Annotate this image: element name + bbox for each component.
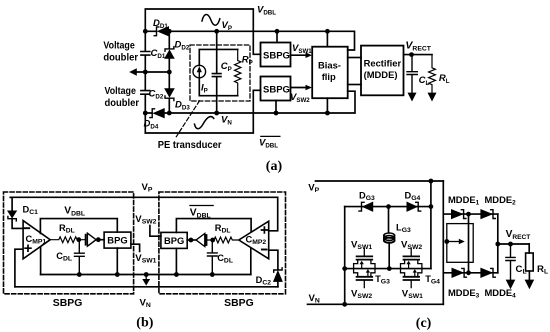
node: CL tap (c) — [508, 242, 513, 247]
svg-text:MDDE3: MDDE3 — [448, 287, 480, 300]
node: left branch VN junction — [342, 302, 347, 307]
capacitor Cp — [212, 74, 221, 77]
resistor RL (a) — [429, 55, 436, 93]
overline VDBLbar (b) — [189, 205, 214, 207]
wire: gate diode row — [345, 206, 431, 208]
CMP2 plus sign — [262, 227, 268, 233]
transistor TG4 — [401, 249, 422, 288]
diode DD4 — [150, 109, 164, 118]
node: VDBL/CD1 junction — [143, 29, 148, 34]
wire: BPG bottom to VN rail (left) — [116, 248, 118, 274]
CMP1 plus sign — [25, 245, 31, 251]
node: CDL tap left — [77, 272, 82, 277]
diode DD2 — [165, 47, 174, 59]
wire: VN rail (c) — [308, 303, 444, 305]
wire: bottom return (b) — [15, 286, 278, 288]
diode MDDE1 — [452, 210, 466, 219]
resistor Rp — [235, 49, 241, 95]
wire: left doubler rail segments — [144, 31, 146, 133]
BPG box (left) — [104, 232, 131, 248]
arrow: voltage doubler output — [129, 68, 137, 76]
node: bias-flip VP tap — [325, 29, 330, 34]
ground arrow RL (a) — [428, 93, 437, 102]
wire: switch row (c) — [345, 268, 431, 270]
resistor RDL (left) — [50, 237, 84, 243]
node: CDL tap right — [210, 272, 215, 277]
SBPG dashed box left — [4, 192, 134, 294]
node: input port dot — [444, 239, 449, 244]
wire: VN rail — [145, 91, 355, 113]
dashed pointer to PE transducer label — [176, 101, 199, 137]
wire: BPG bottom to VN rail (right) — [175, 248, 177, 274]
node: VP rail riser junction — [429, 179, 434, 184]
ground arrow RL (c) — [525, 280, 535, 290]
svg-text:BPG: BPG — [164, 235, 184, 246]
diode MDDE3 — [452, 268, 466, 277]
CMP1 minus sign — [25, 227, 30, 229]
wire: VN rail (b) — [41, 274, 251, 276]
SBPG box 1 — [261, 43, 291, 67]
wire: VRECT output — [404, 54, 433, 56]
resistor RDL (right) — [207, 237, 238, 243]
node: MDDE3/4 junction — [466, 270, 471, 275]
node: VRECT dot — [409, 52, 414, 57]
svg-text:SBPG: SBPG — [53, 298, 83, 309]
wire: VSW1 output stub — [131, 244, 140, 251]
BPG box (right) — [161, 232, 187, 248]
ground arrow VN (b) — [145, 275, 147, 280]
wire: PE inner loop — [199, 49, 237, 95]
diode DC1 — [8, 211, 16, 221]
node: bias-flip VN tap — [325, 111, 330, 116]
buffer (left) — [85, 233, 104, 246]
svg-text:MDDE1: MDDE1 — [448, 194, 480, 207]
node: BPG tap right — [174, 272, 179, 277]
svg-text:doubler: doubler — [105, 98, 140, 109]
wire: CMP1 plus input — [15, 249, 23, 287]
svg-text:(c): (c) — [416, 316, 432, 331]
svg-text:flip: flip — [322, 71, 336, 82]
svg-text:(a): (a) — [266, 159, 283, 174]
svg-text:SBPG: SBPG — [263, 50, 290, 61]
sine symbol top — [202, 14, 220, 25]
capacitor CDL (left) — [75, 240, 85, 275]
node: LG3 tap — [386, 204, 391, 209]
wire: main right vertical (c) — [442, 181, 444, 304]
wire: left branch (c) — [344, 207, 346, 305]
diode DG3 — [359, 202, 373, 211]
svg-text:MDDE4: MDDE4 — [485, 287, 517, 300]
wire: doubler center node — [136, 71, 169, 73]
Rectifier (MDDE) box — [361, 46, 404, 96]
wire: MDDE bottom row — [443, 272, 498, 274]
comparator CMP2 — [239, 221, 269, 259]
svg-text:Voltage: Voltage — [105, 86, 137, 97]
node: VN left junction — [143, 111, 148, 116]
node: SBPG2 VN tap — [274, 111, 279, 116]
capacitor CD2 — [141, 91, 150, 95]
capacitor CD1 — [141, 52, 150, 56]
wire: MDDE center column — [468, 214, 470, 273]
svg-text:Voltage: Voltage — [103, 41, 135, 52]
svg-text:SBPG: SBPG — [224, 298, 254, 309]
transistor TG3 — [354, 249, 375, 288]
node: buffer output dot — [96, 237, 101, 242]
ground arrow CL (c) — [506, 280, 516, 290]
node: doubler mid right — [167, 70, 172, 75]
wire: CMP1 bottom supply to VN rail — [40, 247, 42, 275]
wire: bias-flip to rectifier top — [348, 57, 361, 59]
node: buffer input dot (right) — [189, 238, 194, 243]
node: switch row left — [342, 266, 347, 271]
inductor LG3 — [384, 207, 395, 269]
node: diode row right junction — [429, 204, 434, 209]
node: switch row middle — [387, 266, 392, 271]
PE transducer dashed box — [190, 45, 250, 101]
diode DD1 — [154, 27, 168, 36]
resistor RL (c) — [526, 244, 534, 280]
svg-text:doubler: doubler — [103, 52, 138, 63]
comparator CMP1 — [23, 221, 50, 259]
wire: VSW2 input stub to right BPG — [150, 226, 161, 237]
node: DD1 anode junction — [167, 29, 172, 34]
diode MDDE2 — [481, 210, 495, 219]
svg-text:Rectifier: Rectifier — [364, 57, 402, 68]
wire: DC2 anode to bottom return — [277, 281, 279, 286]
wire: DD2/DD3 column — [168, 31, 170, 113]
diode DC2 — [274, 268, 282, 282]
svg-text:Bias-: Bias- — [318, 60, 341, 71]
node: VN arrow tap — [144, 272, 149, 277]
wire: MDDE right rail — [497, 214, 499, 273]
diode DG4 — [407, 202, 421, 211]
wire: VDBLbar bottom rail — [145, 90, 260, 133]
wire: TG4 riser — [430, 181, 432, 269]
sine symbol bottom — [195, 117, 214, 129]
wire: CMP2 plus input to VP rail — [269, 197, 278, 231]
wire: VDBLbar supply rail (b right) — [176, 219, 251, 233]
svg-text:(b): (b) — [136, 315, 153, 330]
wire: bias-flip top to VP rail — [326, 31, 328, 46]
wire: VP rail — [145, 31, 354, 50]
ground arrow CL (a) — [408, 93, 417, 102]
wire: SBPG2 bottom to VN rail — [275, 101, 277, 114]
capacitor CL (a) — [407, 55, 417, 93]
node: BPG tap left — [115, 272, 120, 277]
node: MDDE1/2 junction — [466, 212, 471, 217]
current source Ip — [193, 65, 206, 78]
node: PE bottom tap — [214, 111, 219, 116]
svg-text:BPG: BPG — [107, 235, 127, 246]
wire: CMP2 minus input to DC2 — [269, 250, 278, 269]
wire: SBPG1 top to VP rail — [276, 31, 278, 42]
wire: VSW1 arrow to bias-flip — [291, 54, 307, 56]
svg-text:PE transducer: PE transducer — [158, 140, 222, 151]
wire: VDBL top rail — [145, 9, 260, 54]
wire: input port rectangle — [447, 224, 473, 263]
wire: VSW2 arrow to bias-flip — [291, 87, 307, 89]
capacitor CDL (right) — [208, 240, 218, 275]
wire: bias-flip to rectifier bottom — [348, 84, 361, 86]
SBPG box 2 — [261, 77, 291, 101]
capacitor CL (c) — [506, 244, 515, 280]
node: RDL/CDL junction (left) — [76, 237, 81, 242]
wire: PE center column — [216, 31, 218, 113]
svg-text:(MDDE): (MDDE) — [364, 69, 398, 80]
SBPG dashed box right — [159, 192, 286, 294]
wire: DC1 to CMP1 minus input — [12, 219, 23, 229]
wire: bias-flip bottom to VN rail — [326, 98, 328, 113]
node: VRECT rail junction — [495, 242, 500, 247]
node: doubler mid left — [143, 70, 148, 75]
node: RDL/CDL junction (right) — [210, 238, 215, 243]
node: DD3 cathode junction — [167, 111, 172, 116]
wire: CMP2 bottom supply to VN rail — [250, 248, 252, 274]
arrow: input current — [447, 241, 461, 243]
wire: VRECT row (c) — [498, 243, 529, 245]
wire: MDDE top row — [443, 213, 498, 215]
wire: VP down to DC1 — [10, 197, 12, 210]
overline VDBLbar (a) — [260, 135, 280, 137]
diode MDDE4 — [481, 268, 495, 277]
wire: VP rail (c) — [316, 180, 444, 182]
node: PE top tap — [214, 29, 219, 34]
CMP2 minus sign — [262, 249, 267, 251]
svg-text:SBPG: SBPG — [263, 84, 290, 95]
wire: VDBL supply rail (b left) — [40, 219, 117, 234]
buffer (right) — [187, 234, 207, 247]
wire: VP rail (b) — [10, 196, 277, 198]
node: SBPG1 VP tap — [275, 29, 280, 34]
Bias-flip box — [312, 47, 348, 98]
svg-text:MDDE2: MDDE2 — [485, 194, 517, 207]
diode DD3 — [165, 89, 174, 101]
